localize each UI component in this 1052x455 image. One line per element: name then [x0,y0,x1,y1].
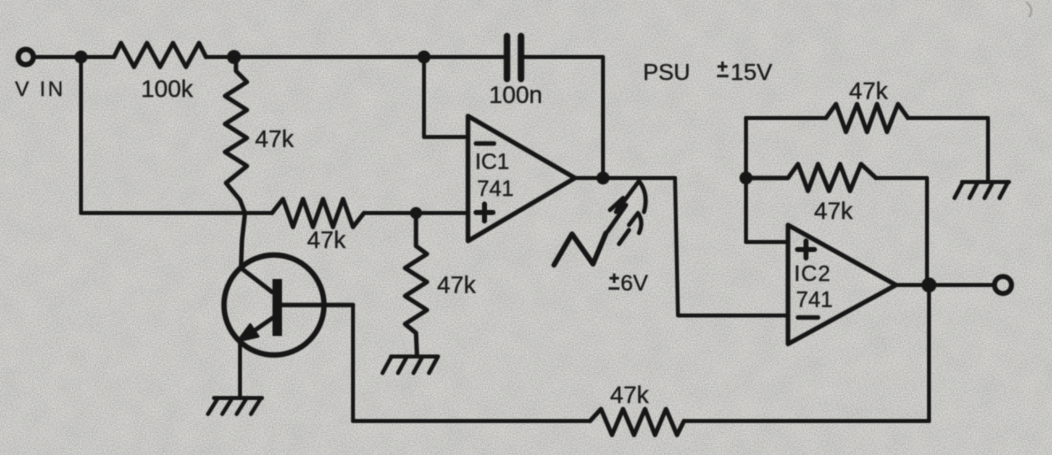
wire input terminal to R1 [35,55,114,59]
wire IC1 output [575,176,675,180]
label plus-minus 15V [717,62,729,77]
wire bottom up to output node [927,285,931,421]
flash arrow big head [610,181,646,212]
wire J6 to IC2 plus input [746,240,788,244]
wire bottom run left [353,419,590,423]
flash arrow shaft [608,205,626,231]
svg-text:15V: 15V [731,59,773,85]
wire R3 to IC1 plus input [364,211,468,215]
wire emitter to ground [238,342,242,398]
wire R6 to output node [876,178,927,285]
resistor R6 47k feedback [746,164,876,191]
wire C1 to IC1 output node [524,57,603,178]
svg-text:47k: 47k [610,382,650,409]
svg-text:47k: 47k [814,198,854,225]
op-amp IC2 triangle [788,225,896,344]
flash arrow small shaft [619,230,629,244]
wire IC2 output [896,283,993,287]
flash arrow tail zigzag [554,233,606,265]
IC1 minus bar [476,141,494,146]
input terminal VIN [18,49,33,64]
svg-text:741: 741 [477,176,514,201]
svg-text:V IN: V IN [15,78,65,101]
resistor R7 47k bottom [590,409,684,435]
transistor Q1 base bar [273,279,283,336]
node D dot [922,278,937,293]
svg-text:PSU: PSU [643,59,690,85]
resistor R2 47k vertical [225,57,247,213]
wire bottom run right [684,419,929,423]
node C dot [597,172,610,185]
scan artifact top right [1026,2,1031,17]
svg-text:47k: 47k [437,272,477,299]
wire J1 down to bottom rail [79,57,83,213]
transistor Q1 emitter lead [251,317,274,333]
svg-text:741: 741 [796,287,833,312]
svg-text:IC2: IC2 [794,261,831,286]
op-amp IC1 triangle [468,116,575,241]
IC1 plus sign [476,204,493,221]
node B dot [410,207,422,219]
IC2 minus bar [798,315,818,320]
output terminal [995,277,1012,294]
wire J3 to IC1 inverting input [424,57,468,137]
transistor Q1 base lead [241,213,272,292]
ground GND1 [208,398,262,414]
resistor R5 47k top [826,104,908,132]
resistor R3 47k horizontal [272,199,364,227]
svg-text:IC1: IC1 [475,149,509,174]
IC2 plus sign [798,241,815,258]
svg-text:47k: 47k [849,78,889,105]
wire R1 to node A [206,55,504,59]
svg-text:100n: 100n [489,82,542,109]
wire bottom rail left [81,211,272,215]
wire collector down [351,305,355,421]
junction J1 [75,51,88,64]
transistor Q1 collector lead [281,303,353,307]
svg-text:47k: 47k [307,227,347,254]
ground GND2 [383,357,439,374]
node A dot [227,50,241,64]
flash arrow small head [629,213,641,233]
svg-text:47k: 47k [255,126,295,153]
wire R5 left [746,116,826,120]
label plus-minus 6V [609,274,620,289]
wire R5 right to ground [908,118,988,182]
transistor Q1 circle [224,255,324,355]
transistor Q1 emitter arrow [238,325,258,342]
svg-text:100k: 100k [141,76,194,103]
resistor R4 47k vertical [405,213,427,356]
resistor R1 100k [114,43,206,67]
node J6 dot [740,172,753,185]
capacitor C1 plate right [518,36,525,79]
svg-text:6V: 6V [621,271,649,296]
junction J3 dot [418,51,431,64]
wire output node down to IC2 inverting input [675,178,788,316]
capacitor C1 plate left [504,36,511,79]
wire J6 vertical [744,118,748,242]
ground GND3 [955,182,1010,198]
